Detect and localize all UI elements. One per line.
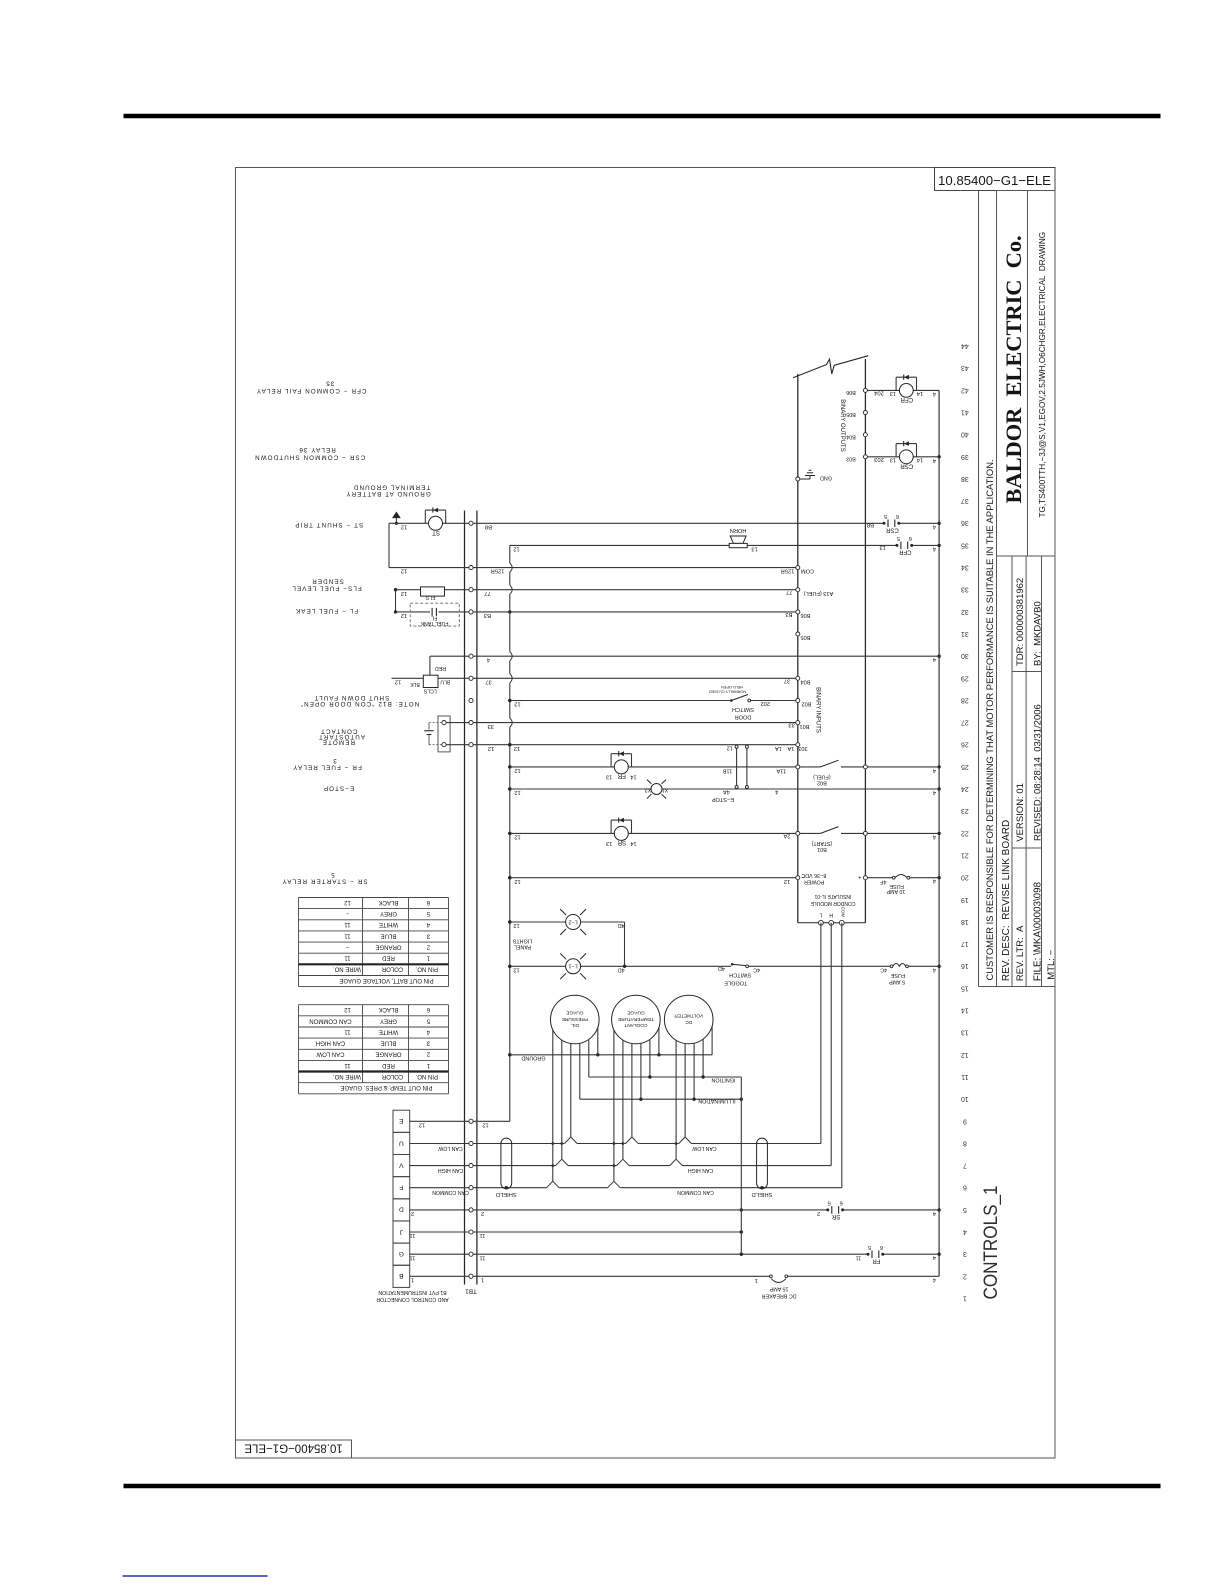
- svg-text:5: 5: [884, 513, 887, 519]
- svg-text:11A: 11A: [776, 767, 786, 773]
- svg-text:BINARY OUTPUTS: BINARY OUTPUTS: [839, 399, 845, 451]
- svg-text:14: 14: [917, 390, 923, 396]
- svg-text:26: 26: [961, 741, 969, 748]
- svg-text:B3: B3: [785, 611, 792, 617]
- svg-text:19: 19: [961, 896, 969, 903]
- svg-text:13: 13: [606, 774, 612, 780]
- svg-text:203: 203: [874, 456, 884, 462]
- svg-text:CSR: CSR: [900, 463, 914, 470]
- svg-text:RED: RED: [435, 665, 446, 671]
- svg-text:37: 37: [485, 678, 491, 684]
- svg-text:WHITE: WHITE: [379, 921, 398, 927]
- svg-text:L−2: L−2: [569, 918, 578, 924]
- svg-text:E: E: [399, 1117, 404, 1124]
- svg-text:12: 12: [419, 1121, 425, 1127]
- svg-text:38: 38: [961, 475, 969, 482]
- svg-text:11: 11: [479, 1232, 485, 1238]
- svg-text:3: 3: [963, 1250, 967, 1257]
- svg-text:B04: B04: [846, 433, 856, 439]
- svg-text:TDR: 000000381962: TDR: 000000381962: [1015, 578, 1026, 666]
- svg-text:CFR: CFR: [898, 549, 911, 555]
- svg-text:REVISED: 08:28:14 03/31/2006: REVISED: 08:28:14 03/31/2006: [1032, 704, 1043, 841]
- svg-text:11: 11: [344, 1062, 351, 1068]
- svg-text:PIN OUT BATT, VOLTAGE GUAGE: PIN OUT BATT, VOLTAGE GUAGE: [339, 977, 433, 983]
- svg-text:A13 (FUEL): A13 (FUEL): [804, 590, 834, 596]
- svg-text:PIN OUT TEMP, & PRES. GUAGE: PIN OUT TEMP, & PRES. GUAGE: [340, 1084, 432, 1090]
- svg-text:2: 2: [411, 1210, 414, 1216]
- svg-text:9: 9: [963, 1117, 967, 1124]
- svg-text:2: 2: [817, 1210, 820, 1216]
- svg-text:35: 35: [325, 379, 334, 386]
- svg-text:B8: B8: [867, 522, 874, 528]
- svg-text:−: −: [345, 944, 349, 950]
- svg-text:WIRE NO.: WIRE NO.: [333, 966, 361, 972]
- svg-text:B: B: [399, 1272, 404, 1279]
- svg-text:3: 3: [332, 757, 337, 764]
- svg-text:BLK: BLK: [410, 681, 420, 687]
- svg-text:FR − FUEL RELAY: FR − FUEL RELAY: [292, 763, 362, 770]
- svg-text:G: G: [399, 1250, 404, 1257]
- svg-text:RED: RED: [382, 955, 395, 961]
- svg-text:11: 11: [961, 1073, 968, 1080]
- svg-text:11: 11: [344, 1028, 351, 1034]
- svg-text:8−36 VDC: 8−36 VDC: [801, 872, 826, 878]
- svg-text:B03: B03: [846, 456, 856, 462]
- svg-text:14: 14: [630, 840, 636, 846]
- svg-text:35: 35: [961, 541, 969, 548]
- svg-text:11: 11: [479, 1254, 485, 1260]
- svg-text:11: 11: [344, 955, 351, 961]
- svg-text:10.85400−G1−ELE: 10.85400−G1−ELE: [244, 1442, 343, 1454]
- svg-text:TOGGLE: TOGGLE: [724, 980, 747, 986]
- svg-text:GROUND AT BATTERY: GROUND AT BATTERY: [345, 490, 430, 497]
- svg-text:12: 12: [514, 789, 520, 795]
- svg-text:1: 1: [755, 1277, 758, 1283]
- svg-text:12: 12: [784, 878, 790, 884]
- svg-text:LCLS: LCLS: [423, 687, 437, 693]
- svg-text:4D: 4D: [718, 965, 725, 971]
- svg-text:B06: B06: [801, 612, 811, 618]
- svg-text:5: 5: [963, 1206, 967, 1213]
- svg-text:NORMALLY CLOSED: NORMALLY CLOSED: [709, 689, 746, 693]
- svg-text:5: 5: [828, 1200, 831, 1206]
- svg-text:MTL: −: MTL: −: [1046, 949, 1057, 979]
- svg-text:20: 20: [961, 874, 969, 881]
- svg-text:REV. DESC: REVISE LINK BOARD: REV. DESC: REVISE LINK BOARD: [1001, 820, 1012, 981]
- svg-text:1A: 1A: [787, 745, 794, 751]
- svg-text:6: 6: [909, 535, 912, 541]
- svg-text:ST − SHUNT TRIP: ST − SHUNT TRIP: [294, 521, 363, 528]
- svg-text:12: 12: [513, 546, 519, 552]
- svg-text:17: 17: [961, 940, 969, 947]
- svg-text:34: 34: [961, 564, 969, 571]
- svg-text:13: 13: [751, 546, 757, 552]
- svg-text:13: 13: [961, 1029, 969, 1036]
- svg-text:18: 18: [961, 918, 969, 925]
- svg-text:28: 28: [961, 696, 969, 703]
- svg-text:B1 PVT INSTRUMENTATION: B1 PVT INSTRUMENTATION: [378, 1289, 447, 1295]
- svg-text:30: 30: [961, 652, 969, 659]
- svg-text:16: 16: [961, 962, 969, 969]
- svg-text:15: 15: [961, 984, 969, 991]
- svg-text:X1: X1: [662, 786, 669, 792]
- svg-text:BY: MKDAVB0: BY: MKDAVB0: [1032, 601, 1043, 666]
- svg-text:E−STOP: E−STOP: [712, 796, 734, 802]
- svg-text:31: 31: [961, 630, 969, 637]
- svg-text:32: 32: [961, 608, 969, 615]
- svg-text:DOOR: DOOR: [735, 713, 752, 719]
- svg-text:1: 1: [963, 1295, 967, 1302]
- svg-text:SWITCH: SWITCH: [729, 971, 751, 977]
- svg-text:B01: B01: [800, 723, 810, 729]
- svg-text:B8: B8: [485, 523, 492, 529]
- svg-text:125R: 125R: [491, 568, 505, 574]
- svg-text:FR: FR: [872, 1257, 881, 1263]
- svg-text:(START): (START): [811, 840, 832, 846]
- svg-text:RED: RED: [382, 1062, 395, 1068]
- svg-text:TERMINAL GROUND: TERMINAL GROUND: [353, 484, 431, 491]
- svg-text:10 AMP: 10 AMP: [886, 888, 905, 894]
- svg-text:1: 1: [481, 1277, 484, 1283]
- svg-text:40: 40: [961, 431, 969, 438]
- svg-text:VERSION: 01: VERSION: 01: [1015, 783, 1026, 842]
- svg-text:CAN HIGH: CAN HIGH: [438, 1167, 464, 1173]
- svg-text:6: 6: [880, 1244, 883, 1250]
- svg-text:12: 12: [401, 590, 407, 596]
- svg-text:33: 33: [487, 723, 493, 729]
- svg-text:OIL,: OIL,: [570, 1022, 579, 1028]
- svg-text:12: 12: [401, 523, 407, 529]
- svg-text:12: 12: [727, 745, 733, 751]
- svg-text:4D: 4D: [618, 922, 625, 928]
- svg-text:33: 33: [961, 586, 969, 593]
- svg-text:PIN NO.: PIN NO.: [415, 1073, 438, 1079]
- svg-text:37: 37: [784, 678, 790, 684]
- svg-text:12: 12: [482, 1121, 488, 1127]
- svg-text:GREY: GREY: [380, 1017, 397, 1023]
- svg-text:ST: ST: [432, 529, 440, 536]
- svg-text:D: D: [399, 1206, 404, 1213]
- svg-text:COLOR: COLOR: [381, 966, 403, 972]
- svg-text:PRESSURE: PRESSURE: [562, 1016, 588, 1022]
- svg-text:4C: 4C: [880, 966, 887, 972]
- svg-text:5: 5: [897, 535, 900, 541]
- svg-text:BLU: BLU: [440, 679, 450, 685]
- svg-text:12: 12: [514, 767, 520, 773]
- svg-text:FUEL TANK: FUEL TANK: [420, 620, 448, 626]
- svg-text:13: 13: [890, 390, 896, 396]
- svg-text:−: −: [345, 910, 349, 916]
- svg-text:CFR − COMMON FAIL RELAY: CFR − COMMON FAIL RELAY: [256, 387, 367, 394]
- svg-text:11: 11: [344, 932, 351, 938]
- svg-text:4C: 4C: [753, 966, 760, 972]
- svg-text:12: 12: [514, 745, 520, 751]
- svg-text:4: 4: [963, 1228, 967, 1235]
- svg-text:REMOTE: REMOTE: [322, 739, 355, 746]
- svg-text:27: 27: [961, 719, 969, 726]
- svg-text:12: 12: [401, 568, 407, 574]
- svg-text:SHUT DOWN FAULT: SHUT DOWN FAULT: [313, 694, 389, 701]
- svg-text:44: 44: [961, 342, 969, 349]
- svg-text:14: 14: [961, 1007, 969, 1014]
- svg-text:2: 2: [481, 1210, 484, 1216]
- svg-text:11: 11: [344, 921, 351, 927]
- svg-text:5: 5: [868, 1244, 871, 1250]
- svg-text:1: 1: [411, 1277, 414, 1283]
- svg-text:21: 21: [961, 852, 969, 859]
- svg-text:CONTROLS_1: CONTROLS_1: [980, 1186, 1002, 1300]
- svg-text:L−1: L−1: [569, 963, 578, 969]
- svg-text:CSR: CSR: [885, 526, 898, 532]
- svg-text:VOLTMETER: VOLTMETER: [674, 1013, 703, 1019]
- svg-text:12: 12: [514, 878, 520, 884]
- svg-text:14: 14: [917, 456, 923, 462]
- svg-text:12: 12: [344, 1006, 351, 1012]
- svg-text:DC BREAKER: DC BREAKER: [761, 1292, 796, 1298]
- svg-text:SR: SR: [831, 1213, 840, 1219]
- svg-text:WHITE: WHITE: [379, 1028, 398, 1034]
- svg-text:6: 6: [840, 1200, 843, 1206]
- svg-text:ORANGE: ORANGE: [375, 944, 401, 950]
- svg-text:BLUE: BLUE: [381, 1040, 397, 1046]
- svg-text:43: 43: [961, 364, 969, 371]
- svg-text:12: 12: [961, 1051, 969, 1058]
- svg-text:LIGHTS: LIGHTS: [512, 938, 532, 944]
- svg-text:77: 77: [484, 590, 490, 596]
- svg-text:15 AMP: 15 AMP: [769, 1286, 788, 1292]
- svg-text:12: 12: [513, 966, 519, 972]
- svg-text:IGNITION: IGNITION: [711, 1077, 735, 1083]
- svg-text:INSULATE IL-01: INSULATE IL-01: [814, 893, 851, 899]
- svg-text:CAN LOW: CAN LOW: [316, 1051, 344, 1057]
- svg-text:REV. LTR: A: REV. LTR: A: [1015, 925, 1026, 981]
- svg-text:GROUND: GROUND: [521, 1055, 545, 1061]
- svg-text:12: 12: [513, 922, 519, 928]
- svg-text:2A: 2A: [783, 833, 790, 839]
- svg-text:B3: B3: [484, 612, 491, 618]
- svg-text:2: 2: [963, 1272, 967, 1279]
- svg-text:13: 13: [890, 456, 896, 462]
- svg-text:6: 6: [896, 513, 899, 519]
- svg-text:1A: 1A: [775, 745, 782, 751]
- svg-text:12: 12: [514, 834, 520, 840]
- svg-text:CUSTOMER IS RESPONSIBLE FOR DE: CUSTOMER IS RESPONSIBLE FOR DETERMINING …: [984, 459, 995, 980]
- svg-text:77: 77: [786, 589, 792, 595]
- svg-text:J: J: [400, 1228, 403, 1235]
- svg-text:SR: SR: [617, 839, 626, 846]
- svg-text:TB1: TB1: [465, 1288, 477, 1295]
- svg-text:SHIELD: SHIELD: [496, 1191, 517, 1197]
- svg-text:E−STOP: E−STOP: [323, 784, 354, 791]
- svg-text:HORN: HORN: [730, 527, 746, 533]
- svg-text:23: 23: [961, 807, 969, 814]
- svg-text:12: 12: [401, 612, 407, 618]
- svg-text:BINARY INPUTS: BINARY INPUTS: [815, 687, 821, 733]
- svg-text:GUAGE: GUAGE: [566, 1010, 583, 1016]
- svg-text:B01: B01: [817, 846, 827, 852]
- svg-text:H: H: [829, 912, 833, 918]
- svg-text:12: 12: [344, 899, 351, 905]
- svg-text:CAN HIGH: CAN HIGH: [316, 1040, 345, 1046]
- svg-text:12: 12: [488, 745, 494, 751]
- svg-text:BALDOR ELECTRIC Co.: BALDOR ELECTRIC Co.: [1001, 235, 1026, 503]
- svg-text:POWER: POWER: [804, 878, 824, 884]
- svg-text:+: +: [858, 873, 862, 879]
- svg-text:FL − FUEL LEAK: FL − FUEL LEAK: [295, 607, 358, 614]
- svg-text:10.85400−G1−ELE: 10.85400−G1−ELE: [938, 173, 1051, 188]
- svg-text:CAN COMMON: CAN COMMON: [677, 1189, 714, 1195]
- svg-text:CAN LOW: CAN LOW: [438, 1145, 462, 1151]
- svg-text:11: 11: [409, 1232, 415, 1238]
- svg-text:TEMPERATURE: TEMPERATURE: [618, 1016, 654, 1022]
- svg-text:12: 12: [514, 701, 520, 707]
- svg-text:SWITCH: SWITCH: [732, 706, 754, 712]
- svg-text:CFR: CFR: [900, 396, 913, 403]
- svg-text:CAN LOW: CAN LOW: [692, 1145, 716, 1151]
- svg-text:SENDER: SENDER: [311, 578, 344, 585]
- svg-text:29: 29: [961, 674, 969, 681]
- svg-text:4F: 4F: [880, 878, 887, 884]
- svg-text:24: 24: [961, 785, 969, 792]
- svg-text:5: 5: [330, 871, 335, 878]
- svg-text:41: 41: [961, 409, 969, 416]
- svg-text:37: 37: [961, 497, 969, 504]
- svg-text:6: 6: [963, 1184, 967, 1191]
- svg-text:COM: COM: [801, 568, 814, 574]
- svg-text:B05: B05: [801, 634, 811, 640]
- svg-text:CAN COMMON: CAN COMMON: [432, 1189, 469, 1195]
- svg-text:COOLANT: COOLANT: [624, 1022, 647, 1028]
- svg-text:125R: 125R: [781, 568, 795, 574]
- svg-text:NOTE: B12 “CON DOOR OPEN”: NOTE: B12 “CON DOOR OPEN”: [300, 700, 420, 707]
- svg-text:ILLUMINATION: ILLUMINATION: [698, 1098, 735, 1104]
- svg-text:GND: GND: [820, 474, 832, 480]
- svg-text:202: 202: [760, 700, 770, 706]
- svg-text:RELAY 36: RELAY 36: [298, 446, 336, 453]
- svg-text:FLS: FLS: [425, 594, 435, 600]
- svg-text:DC: DC: [685, 1019, 692, 1025]
- svg-text:U: U: [399, 1139, 404, 1146]
- svg-text:33: 33: [788, 722, 794, 728]
- svg-text:FILE: \MKA\00003\098: FILE: \MKA\00003\098: [1032, 881, 1043, 981]
- svg-text:CSR − COMMON SHUTDOWN: CSR − COMMON SHUTDOWN: [254, 453, 365, 460]
- svg-text:PIN NO.: PIN NO.: [415, 966, 438, 972]
- svg-text:FR: FR: [617, 773, 626, 780]
- svg-text:HELD OPEN: HELD OPEN: [721, 685, 743, 689]
- svg-text:GREY: GREY: [380, 910, 397, 916]
- svg-text:5 AMP: 5 AMP: [889, 979, 905, 985]
- svg-text:B04: B04: [801, 679, 811, 685]
- svg-text:4A: 4A: [723, 789, 730, 795]
- svg-text:F: F: [399, 1184, 403, 1191]
- svg-text:X2: X2: [645, 786, 652, 792]
- svg-text:V: V: [399, 1161, 404, 1168]
- svg-text:B02: B02: [802, 701, 812, 707]
- svg-text:ORANGE: ORANGE: [375, 1051, 401, 1057]
- svg-text:CAN COMMON: CAN COMMON: [309, 1017, 351, 1023]
- svg-text:BLACK: BLACK: [379, 1006, 399, 1012]
- svg-text:303: 303: [798, 745, 807, 751]
- svg-text:13: 13: [606, 840, 612, 846]
- svg-text:GUAGE: GUAGE: [627, 1010, 644, 1016]
- svg-text:25: 25: [961, 763, 969, 770]
- svg-text:11: 11: [856, 1254, 862, 1260]
- svg-text:CONDOR MODULE: CONDOR MODULE: [810, 900, 856, 906]
- svg-text:SR − STARTER RELAY: SR − STARTER RELAY: [281, 878, 367, 885]
- svg-text:8: 8: [963, 1139, 967, 1146]
- svg-text:BLUE: BLUE: [381, 932, 397, 938]
- svg-text:CAN HIGH: CAN HIGH: [688, 1167, 714, 1173]
- svg-text:10: 10: [961, 1095, 969, 1102]
- svg-text:SHIELD: SHIELD: [752, 1191, 773, 1197]
- svg-text:COM: COM: [841, 907, 846, 918]
- svg-text:TG,TS400TTH,−3J@S,V1,EGOV,2.5J: TG,TS400TTH,−3J@S,V1,EGOV,2.5JWH,O6CHGR,…: [1038, 232, 1047, 518]
- svg-text:COLOR: COLOR: [381, 1073, 403, 1079]
- svg-text:42: 42: [961, 386, 969, 393]
- svg-text:11: 11: [409, 1254, 415, 1260]
- svg-text:204: 204: [873, 390, 883, 396]
- svg-text:11B: 11B: [722, 768, 732, 774]
- svg-text:AND CONTROL CONNECTOR: AND CONTROL CONNECTOR: [376, 1296, 449, 1302]
- svg-text:14: 14: [630, 774, 636, 780]
- svg-text:WIRE NO.: WIRE NO.: [333, 1073, 361, 1079]
- svg-text:(FUEL): (FUEL): [813, 774, 831, 780]
- svg-text:FL: FL: [431, 615, 437, 621]
- svg-text:B02: B02: [817, 779, 827, 785]
- svg-text:B05: B05: [846, 411, 856, 417]
- svg-text:FLS− FUEL LEVEL: FLS− FUEL LEVEL: [291, 584, 362, 591]
- svg-text:4D: 4D: [618, 966, 625, 972]
- svg-text:39: 39: [961, 453, 969, 460]
- svg-text:22: 22: [961, 829, 969, 836]
- svg-text:L: L: [819, 912, 822, 918]
- svg-text:36: 36: [961, 519, 969, 526]
- svg-text:FUSE: FUSE: [890, 972, 905, 978]
- svg-text:13: 13: [879, 544, 885, 550]
- svg-text:7: 7: [963, 1162, 967, 1169]
- svg-text:PANEL: PANEL: [514, 944, 531, 950]
- svg-text:12: 12: [395, 678, 401, 684]
- svg-text:BLACK: BLACK: [379, 899, 399, 905]
- svg-text:B06: B06: [846, 389, 856, 395]
